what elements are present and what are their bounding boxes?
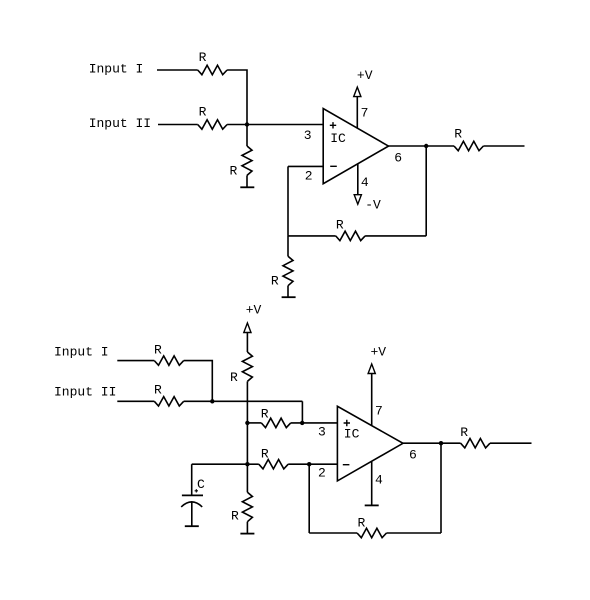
- wire +V to R: [246, 333, 248, 353]
- node pin3 row: [245, 421, 249, 425]
- svg-text:2: 2: [318, 465, 326, 480]
- resistor R (top input II): [198, 120, 227, 129]
- wire input II to corner: [184, 400, 303, 402]
- svg-text:IC: IC: [344, 427, 360, 442]
- wire Input II lead (bottom): [117, 400, 154, 402]
- wire input I to node: [227, 70, 247, 125]
- arrowhead +V (top): [354, 87, 361, 97]
- svg-text:R: R: [231, 509, 239, 524]
- svg-text:+V: +V: [371, 345, 387, 360]
- op-amp plus input mark: [330, 122, 336, 128]
- wire output: [389, 145, 455, 147]
- wire feedback up to pin2: [308, 464, 310, 533]
- svg-text:4: 4: [375, 473, 383, 488]
- svg-text:R: R: [199, 105, 207, 120]
- svg-text:Input II: Input II: [54, 385, 116, 400]
- wire feedback right: [365, 235, 426, 237]
- wire feedback right (bottom): [387, 532, 442, 534]
- wire R to pin 3: [291, 422, 338, 424]
- svg-text:R: R: [336, 218, 344, 233]
- wire input I corner (bottom): [184, 361, 213, 401]
- resistor R (bottom input I): [154, 356, 183, 365]
- node pin3 junction: [300, 421, 304, 425]
- ground (top input R): [240, 186, 254, 188]
- svg-text:4: 4: [361, 175, 369, 190]
- node output junction (top): [424, 144, 428, 148]
- resistor R (top feedback): [336, 231, 365, 240]
- wire pin 4 to ground: [371, 461, 373, 505]
- wire output (bottom): [403, 442, 461, 444]
- wire feedback down: [425, 146, 427, 236]
- svg-text:Input I: Input I: [89, 62, 144, 77]
- svg-text:R: R: [230, 370, 238, 385]
- ground (pin 4): [365, 504, 379, 506]
- svg-text:R: R: [271, 273, 279, 288]
- svg-text:Input I: Input I: [54, 345, 109, 360]
- resistor R to ground (top feedback): [283, 256, 293, 285]
- wire Input I lead: [157, 69, 198, 71]
- resistor R to ground (bottom): [242, 492, 252, 521]
- wire feedback left: [288, 235, 336, 237]
- wire Input II lead: [158, 124, 198, 126]
- arrowhead +V (bottom): [368, 364, 375, 374]
- wire R to ground: [246, 175, 248, 187]
- resistor R (bottom output): [461, 439, 490, 448]
- op-amp plus input mark (bottom): [344, 420, 350, 426]
- svg-text:7: 7: [361, 105, 369, 120]
- svg-text:3: 3: [304, 128, 312, 143]
- wire output end: [483, 145, 524, 147]
- wire bias rail down: [246, 381, 248, 464]
- wire lower R to ground: [287, 286, 289, 298]
- svg-text:IC: IC: [330, 131, 346, 146]
- resistor R (top input I): [198, 65, 227, 74]
- arrowhead +V (bias): [244, 323, 251, 333]
- resistor R (top output): [454, 141, 483, 150]
- wire output end (bottom): [490, 442, 532, 444]
- svg-text:Input II: Input II: [89, 116, 151, 131]
- resistor R bias from +V: [242, 352, 252, 381]
- wire corner down to pin3 node: [301, 401, 303, 423]
- svg-text:R: R: [230, 164, 238, 179]
- svg-text:R: R: [454, 127, 462, 142]
- svg-text:R: R: [154, 383, 162, 398]
- wire Input I lead (bottom): [117, 360, 154, 362]
- wire left branch to capacitor: [192, 463, 248, 465]
- svg-text:R: R: [154, 342, 162, 357]
- wire feedback left (bottom): [309, 532, 357, 534]
- svg-text:R: R: [460, 425, 468, 440]
- resistor R to ground (top input node): [242, 146, 252, 175]
- op-amp minus input mark: [330, 165, 337, 167]
- resistor R (pin 3 series): [261, 418, 290, 427]
- wire feedback down (bottom): [440, 443, 442, 533]
- wire pin 7 supply: [356, 97, 358, 129]
- wire node to pin 3: [227, 124, 323, 126]
- node pin2 junction: [307, 462, 311, 466]
- svg-text:R: R: [261, 446, 269, 461]
- svg-text:3: 3: [318, 425, 326, 440]
- op-amp IC (top): [323, 109, 388, 184]
- capacitor C top plate: [182, 494, 203, 496]
- svg-text:2: 2: [305, 168, 313, 183]
- svg-text:6: 6: [394, 150, 402, 165]
- op-amp IC (bottom): [337, 406, 403, 481]
- node pin2 row: [245, 462, 249, 466]
- wire capacitor to ground: [191, 502, 193, 526]
- arrowhead -V: [354, 195, 361, 205]
- wire node to R pin2: [247, 463, 258, 465]
- wire pin 4 supply: [357, 164, 359, 194]
- resistor R (bottom input II): [154, 397, 183, 406]
- node input junction (top): [245, 122, 249, 126]
- svg-text:C: C: [197, 477, 205, 492]
- op-amp minus input mark (bottom): [343, 464, 350, 466]
- wire R to pin 2: [288, 463, 337, 465]
- svg-text:+V: +V: [246, 302, 262, 317]
- wire pin 7 supply (bottom): [371, 374, 373, 426]
- svg-text:-V: -V: [365, 197, 381, 212]
- capacitor plus polarity mark: [195, 489, 198, 492]
- capacitor C curved plate: [181, 502, 202, 507]
- svg-text:6: 6: [409, 448, 417, 463]
- wire pin2 node down: [287, 166, 289, 236]
- svg-text:7: 7: [375, 404, 383, 419]
- svg-text:+V: +V: [357, 68, 373, 83]
- wire node down to R: [246, 464, 248, 492]
- svg-text:R: R: [199, 50, 207, 65]
- node output junction (bottom): [439, 441, 443, 445]
- ground (capacitor): [185, 525, 199, 527]
- resistor R (pin 2 series): [259, 460, 288, 469]
- wire pin 2: [288, 165, 323, 167]
- wire node to R pin3: [247, 422, 261, 424]
- wire R to ground: [246, 522, 248, 534]
- svg-text:R: R: [358, 516, 366, 531]
- wire down to capacitor: [191, 464, 193, 495]
- wire node down: [246, 125, 248, 147]
- svg-text:R: R: [261, 406, 269, 421]
- node input junction (bottom): [210, 399, 214, 403]
- ground (top feedback R): [282, 296, 296, 298]
- ground (bottom R): [240, 533, 254, 535]
- wire to lower R: [287, 236, 289, 256]
- resistor R (bottom feedback): [357, 528, 386, 537]
